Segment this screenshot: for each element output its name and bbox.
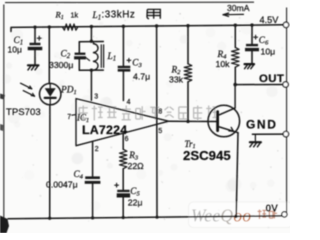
svg-text:2SC945: 2SC945 [183,148,231,163]
svg-text:LA7224: LA7224 [82,123,127,137]
svg-text:1k: 1k [71,10,79,19]
svg-text:0V: 0V [266,203,279,214]
svg-text:TPS703: TPS703 [6,107,41,118]
svg-text:WeeQoo: WeeQoo [191,206,251,226]
svg-text:7: 7 [67,114,71,121]
svg-text:10k: 10k [216,59,231,69]
svg-text::33kHz: :33kHz [102,10,136,21]
svg-text:8: 8 [158,108,162,115]
svg-text:3: 3 [94,94,98,101]
svg-text:33k: 33k [169,75,184,85]
svg-text:4.7μ: 4.7μ [133,72,150,82]
svg-text:6: 6 [125,136,129,143]
svg-text:2: 2 [95,146,99,153]
svg-text:5: 5 [158,128,162,135]
svg-text:22Ω: 22Ω [128,161,145,171]
svg-text:10μ: 10μ [261,47,276,57]
svg-text:30mA: 30mA [227,3,250,13]
svg-text:GND: GND [246,117,277,131]
svg-text:0.0047μ: 0.0047μ [46,180,78,190]
svg-text:4: 4 [127,99,131,106]
svg-text:3300μ: 3300μ [49,60,73,70]
svg-text:22μ: 22μ [128,197,143,207]
svg-text:10μ: 10μ [8,44,22,54]
svg-text:4.5V: 4.5V [260,15,280,25]
svg-text:OUT: OUT [259,73,284,85]
